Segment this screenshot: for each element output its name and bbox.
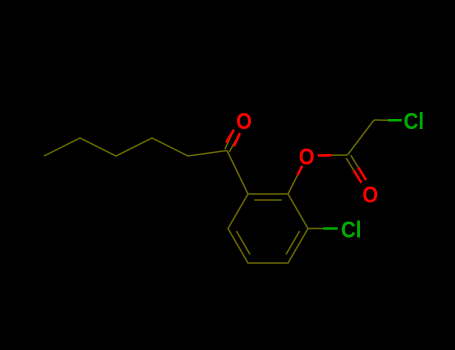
svg-text:O: O	[299, 143, 315, 170]
ring to ester O bond	[288, 175, 298, 194]
wire: ketone C to ring	[227, 151, 248, 195]
acyl C to CH2 bond	[348, 120, 375, 155]
CH2 to Cl bond	[374, 119, 388, 121]
ketone C=O double bond	[225, 130, 240, 152]
wire: pentyl chain	[44, 138, 227, 156]
svg-text:Cl: Cl	[404, 108, 424, 135]
benzene ring	[228, 194, 308, 263]
acyl C=O double bond	[346, 155, 366, 183]
ring to Cl bond	[308, 228, 323, 230]
svg-text:O: O	[362, 181, 378, 208]
ring inner double bond lines	[236, 200, 299, 255]
ester O to acyl C bond	[318, 154, 332, 157]
svg-text:Cl: Cl	[341, 216, 361, 243]
svg-text:O: O	[236, 108, 252, 135]
